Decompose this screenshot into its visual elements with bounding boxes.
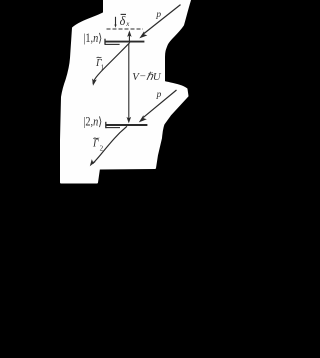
svg-text:δ: δ	[120, 14, 126, 28]
svg-text:1: 1	[101, 64, 105, 72]
svg-text:−: −	[140, 70, 146, 82]
svg-text:p: p	[155, 10, 161, 20]
svg-text:2: 2	[100, 144, 104, 152]
svg-text:p: p	[156, 90, 162, 100]
svg-text:|2,n⟩: |2,n⟩	[83, 115, 102, 129]
svg-text:|1,n⟩: |1,n⟩	[83, 31, 102, 45]
svg-text:ℏU: ℏU	[146, 71, 162, 83]
